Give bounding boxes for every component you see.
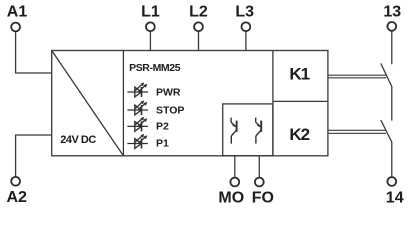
svg-text:A2: A2 [6,189,27,206]
svg-text:A1: A1 [7,4,28,21]
terminal MO [230,178,239,187]
svg-text:K2: K2 [289,125,309,144]
svg-text:P1: P1 [156,138,169,150]
LED PWR [127,82,148,97]
wire L2 [198,31,200,50]
terminal A2 [11,177,20,186]
wire terminal 14 [391,142,393,177]
wire terminal 13 [391,31,393,64]
terminal 14 [387,177,396,186]
transistor FO output [256,118,262,144]
logic / relay divider [272,51,274,156]
wire A1 [16,31,52,73]
transistor MO output [231,118,237,144]
wire L1 [149,31,151,50]
power supply diagonal [52,51,124,156]
contact blade K2 [381,120,392,143]
wire FO [258,156,260,178]
svg-text:STOP: STOP [156,105,184,117]
mechanical linkage K2 [328,130,386,133]
wire MO [234,156,236,178]
svg-text:FO: FO [252,190,274,207]
svg-text:L2: L2 [189,4,208,21]
terminal A1 [11,23,20,32]
svg-text:13: 13 [383,4,401,21]
enclosure box [52,51,328,156]
LED P2 [127,117,148,132]
svg-text:MO: MO [218,190,244,207]
svg-text:14: 14 [386,190,404,207]
terminal FO [255,178,264,187]
wire A2 [16,135,52,177]
terminal 13 [387,22,396,31]
terminal L1 [146,22,155,31]
wire between contacts [391,87,393,121]
relay K1/K2 divider [273,100,328,102]
wire L3 [245,31,247,50]
svg-text:K1: K1 [289,64,309,83]
contact blade K1 [381,63,392,87]
LED STOP [127,100,148,115]
mechanical linkage K1 [328,75,386,78]
terminal L2 [194,22,203,31]
svg-text:L3: L3 [235,4,254,21]
svg-text:PWR: PWR [156,87,181,99]
svg-text:PSR-MM25: PSR-MM25 [129,62,181,74]
power supply / logic divider [122,51,124,156]
semiconductor output box [223,104,273,156]
svg-text:P2: P2 [156,121,169,133]
LED P1 [127,134,148,149]
svg-text:24V DC: 24V DC [60,134,96,146]
terminal L3 [242,22,251,31]
svg-text:L1: L1 [141,4,160,21]
